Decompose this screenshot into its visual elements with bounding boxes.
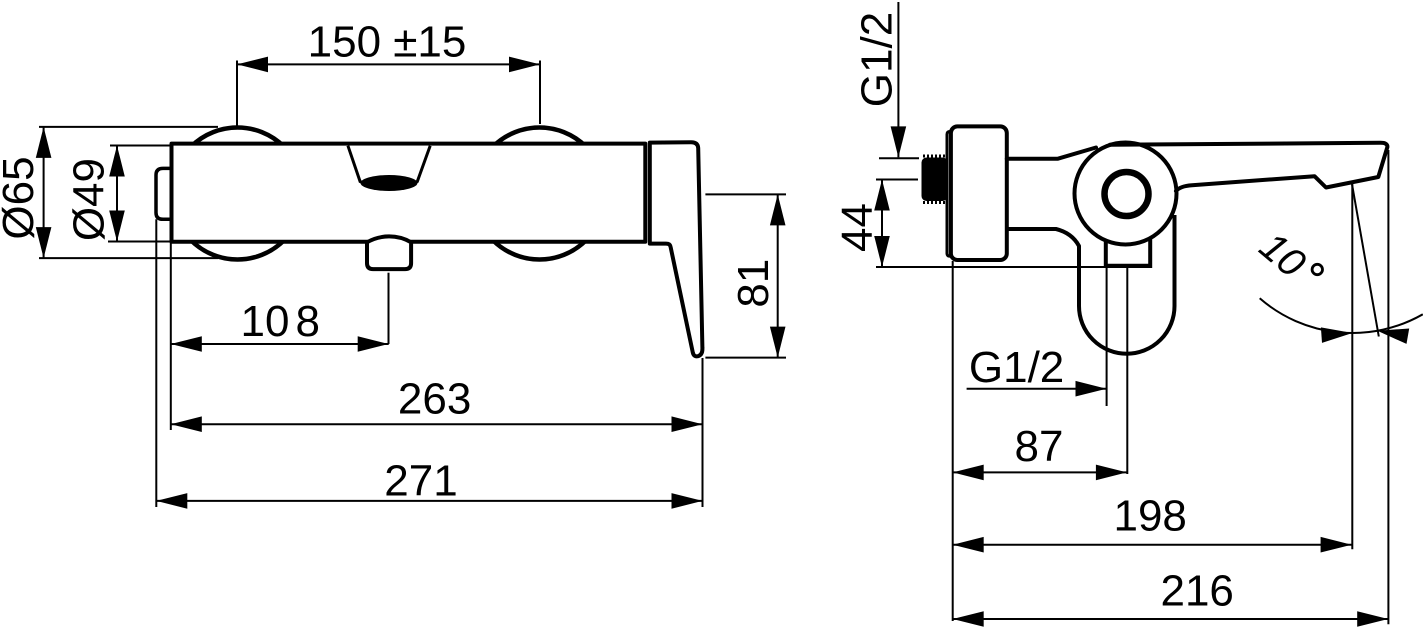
- svg-text:216: 216: [1160, 567, 1233, 616]
- svg-text:G1/2: G1/2: [853, 12, 902, 107]
- svg-text:Ø49: Ø49: [65, 158, 114, 241]
- svg-text:44: 44: [833, 203, 882, 252]
- svg-text:198: 198: [1113, 492, 1186, 541]
- svg-text:263: 263: [398, 375, 471, 424]
- svg-text:81: 81: [729, 259, 778, 308]
- svg-text:Ø65: Ø65: [0, 156, 43, 239]
- svg-text:G1/2: G1/2: [969, 343, 1064, 392]
- svg-text:87: 87: [1015, 422, 1064, 471]
- svg-text:150 ±15: 150 ±15: [308, 18, 467, 67]
- svg-text:271: 271: [384, 457, 457, 506]
- svg-text:108: 108: [241, 297, 320, 346]
